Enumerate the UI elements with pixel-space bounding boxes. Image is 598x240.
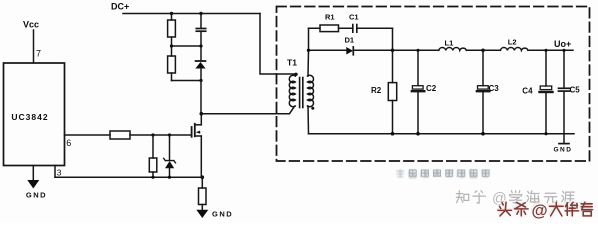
wire DC+ rail	[123, 13, 260, 15]
op-amp controller U1 UC3842 box	[4, 63, 65, 166]
dashed box (output rectifier filter section)	[277, 7, 590, 162]
node junction dots on pin6 wire	[151, 133, 154, 136]
wire D1 branch left	[309, 49, 347, 51]
wire DC+ down to primary top	[260, 14, 296, 75]
pin 3 step wire	[54, 166, 56, 178]
resistor (feedback divider, vertical)	[149, 158, 157, 172]
svg-text:3: 3	[57, 168, 62, 178]
caption output-rectifier-filter (blurred)	[397, 169, 490, 177]
wire UC3842 to ground	[32, 166, 34, 181]
secondary polarity dot	[311, 107, 314, 110]
resistor (snubber lower)	[168, 56, 176, 73]
svg-text:C1: C1	[349, 13, 359, 22]
node dots secondary/D1	[307, 49, 310, 52]
svg-text:L1: L1	[445, 39, 454, 48]
watermark zhihu gray	[456, 191, 574, 207]
resistor R1	[320, 25, 339, 32]
svg-text:T1: T1	[287, 58, 297, 68]
node dots on pin3 rail	[151, 176, 154, 179]
svg-text:R1: R1	[325, 13, 335, 22]
svg-text:UC3842: UC3842	[11, 112, 48, 122]
wire gate resistor to MOSFET gate	[130, 134, 192, 136]
secondary winding	[308, 75, 314, 106]
diode (snubber clamp, pointing up)	[196, 60, 206, 62]
svg-text:6: 6	[66, 138, 71, 148]
wire between snubber resistors	[171, 37, 173, 56]
watermark toutiao embossed	[497, 201, 593, 220]
svg-text:C5: C5	[570, 85, 581, 94]
svg-text:7: 7	[36, 49, 41, 59]
capacitor C1	[352, 25, 354, 33]
svg-text:D1: D1	[345, 36, 355, 45]
ground (UC3842)	[27, 180, 39, 189]
zener diode D2	[164, 158, 176, 177]
svg-text:C4: C4	[522, 86, 533, 95]
wire to zener	[169, 135, 171, 160]
svg-text:Uo+: Uo+	[554, 39, 571, 49]
resistor R2	[388, 83, 396, 101]
wire snubber cross lower	[172, 80, 202, 82]
node drain junction	[200, 112, 204, 116]
wire snubber left branch	[171, 14, 173, 21]
wire R1C1 down to D1 node	[392, 28, 394, 50]
svg-text:GND: GND	[554, 147, 573, 154]
svg-text:R2: R2	[371, 86, 382, 95]
primary winding	[289, 75, 295, 106]
svg-text:L2: L2	[508, 38, 517, 47]
transistor Q1 MOSFET	[192, 114, 202, 178]
svg-text:@: @	[532, 202, 548, 220]
wire pin3 rail	[55, 176, 202, 178]
node after L1	[481, 49, 485, 53]
svg-text:Vcc: Vcc	[23, 20, 39, 30]
wire feedback resistor to pin3 rail	[152, 172, 154, 177]
wire bottom output rail	[309, 133, 575, 135]
wire secondary top lead	[307, 28, 310, 76]
capacitor C5	[563, 50, 565, 87]
core	[299, 78, 301, 108]
diode D1	[346, 47, 353, 55]
wire snubber left bottom	[171, 73, 173, 81]
wire R2 branch	[392, 50, 394, 82]
wire R1C1 branch	[309, 27, 393, 29]
ground (source sense)	[196, 210, 208, 218]
svg-text:C3: C3	[489, 84, 500, 93]
svg-text:GND: GND	[212, 210, 233, 219]
svg-text:DC+: DC+	[111, 2, 129, 12]
wire drain to transformer primary bottom	[201, 106, 294, 113]
wire snubber to drain node	[200, 81, 202, 114]
wire to feedback resistor	[152, 135, 154, 158]
wire snubber cross upper	[172, 45, 202, 47]
wire top output rail	[393, 49, 574, 51]
node dots on DC+ rail	[170, 12, 173, 15]
svg-text:C2: C2	[426, 84, 437, 93]
inductor L2	[500, 48, 528, 51]
ground terminal stub (output)	[563, 134, 565, 143]
capacitor C4	[545, 50, 547, 86]
wire Vcc to pin 7	[33, 30, 35, 63]
wire secondary bottom lead	[307, 106, 310, 134]
inductor L1	[439, 48, 467, 51]
resistor (current sense)	[201, 177, 203, 188]
resistor (snubber upper)	[168, 20, 176, 37]
wire pin 6 to gate resistor	[65, 134, 111, 136]
capacitor C2	[417, 50, 419, 85]
capacitor (snubber clamp)	[196, 28, 205, 30]
svg-text:GND: GND	[26, 191, 47, 200]
node dots bottom rail	[391, 132, 395, 136]
wire snubber right branch top	[200, 14, 202, 28]
resistor R gate (series on pin6 wire)	[110, 131, 130, 139]
wire D1 to node	[353, 49, 392, 51]
capacitor C3	[482, 50, 484, 85]
